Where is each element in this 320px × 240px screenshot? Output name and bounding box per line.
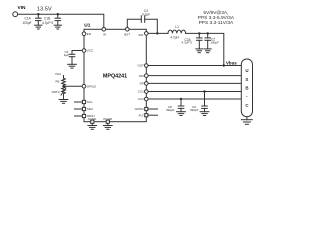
ground C1A: [35, 25, 42, 29]
wire SDA stub: [75, 108, 83, 110]
svg-text:R6: R6: [56, 79, 60, 83]
pin IN: [102, 28, 106, 32]
wire AGND to ground: [91, 124, 93, 126]
label USB-C: [245, 68, 249, 108]
pin IMON: [82, 114, 85, 117]
wire DM to USB-C: [148, 75, 241, 77]
pin CC2: [145, 97, 149, 101]
ground RNTC: [59, 100, 68, 104]
ground C9: [200, 112, 209, 116]
wire PGND to ground: [107, 124, 109, 126]
capacitor C4: [141, 16, 144, 23]
node Vbus junction: [223, 64, 225, 66]
node C2A junction: [198, 32, 200, 34]
svg-text:SDA: SDA: [87, 107, 93, 111]
svg-text:C1B: C1B: [44, 16, 50, 20]
wire node to GPIO2: [64, 85, 83, 87]
wire DP to USB-C: [148, 82, 241, 84]
svg-text:U: U: [245, 68, 248, 73]
USB-C connector: [241, 59, 252, 117]
svg-text:DP: DP: [140, 82, 144, 86]
svg-text:IN: IN: [103, 33, 106, 37]
pin EN: [82, 32, 86, 36]
svg-text:MPQ4241: MPQ4241: [103, 74, 127, 80]
pin GPIO2: [82, 84, 86, 88]
wire VIN rail: [18, 14, 104, 27]
svg-text:390pF: 390pF: [166, 108, 175, 112]
svg-text:PGND: PGND: [103, 117, 113, 121]
wire VCC to C3: [72, 51, 82, 55]
svg-text:100µF: 100µF: [210, 40, 219, 44]
capacitor C1A: [36, 14, 42, 25]
node C1B junction: [57, 13, 59, 15]
capacitor C2: [205, 33, 211, 49]
svg-text:BST: BST: [124, 33, 130, 37]
svg-text:VCC: VCC: [55, 72, 62, 76]
svg-text:RNTC: RNTC: [52, 90, 61, 94]
ground C8: [177, 112, 186, 116]
thermistor arrow: [61, 88, 66, 95]
svg-text:EN: EN: [87, 32, 91, 36]
svg-text:VCC: VCC: [87, 49, 94, 53]
resistor R6: [62, 78, 66, 85]
ground AGND: [88, 126, 97, 130]
svg-text:SCL: SCL: [87, 100, 93, 104]
ground PGND: [103, 126, 112, 130]
svg-text:4.7µF*2: 4.7µF*2: [182, 41, 193, 45]
inductor L1: [168, 30, 186, 33]
IC U1 MPQ4241: [84, 29, 146, 121]
svg-text:4.7µH: 4.7µH: [170, 35, 179, 39]
node C1A junction: [37, 13, 39, 15]
pin DP: [145, 82, 149, 86]
svg-text:S: S: [245, 77, 248, 82]
svg-text:OUT: OUT: [137, 64, 144, 68]
svg-text:1µF: 1µF: [64, 53, 69, 57]
node SW junction: [156, 32, 158, 34]
pin AGND: [91, 120, 94, 123]
svg-text:B: B: [245, 86, 248, 91]
svg-text:PPS 3.3-11V/3A: PPS 3.3-11V/3A: [199, 20, 234, 26]
svg-text:CC1: CC1: [138, 90, 144, 94]
svg-text:AGND: AGND: [88, 117, 98, 121]
wire OUT to USB-C VBUS: [148, 65, 241, 67]
svg-text:100µF: 100µF: [23, 21, 32, 25]
thermistor RNTC: [62, 86, 66, 94]
ground C1B: [54, 25, 61, 29]
svg-text:L1: L1: [175, 25, 179, 29]
wire RNTC to ground: [63, 94, 65, 100]
wire L1 to Vout corner: [186, 33, 224, 65]
svg-text:U1: U1: [84, 23, 90, 29]
svg-text:GPIO1: GPIO1: [135, 107, 145, 111]
ground C2A: [196, 49, 203, 53]
pin SCL: [82, 100, 85, 103]
wire VCC net to resistor: [63, 76, 65, 79]
svg-text:SW: SW: [138, 33, 143, 37]
pin CC1: [145, 90, 149, 94]
wire IMON stub: [75, 115, 83, 117]
node CC1 cap junction: [203, 90, 205, 92]
capacitor C3: [69, 54, 75, 64]
pin VCC: [82, 49, 86, 53]
pin FLT: [145, 114, 148, 117]
node C2 junction: [207, 32, 209, 34]
capacitor C1B: [55, 14, 61, 25]
wire CC2 to USB-C: [148, 98, 241, 100]
pin BST: [126, 28, 130, 32]
pin SDA: [82, 107, 85, 110]
ground C2: [204, 49, 211, 53]
wire SW to L1: [148, 32, 168, 34]
wire BST bootstrap: [127, 19, 141, 27]
svg-text:13.5V: 13.5V: [37, 6, 52, 12]
svg-text:FLT: FLT: [139, 113, 144, 117]
svg-text:C1A: C1A: [25, 16, 32, 20]
node CC2 cap junction: [180, 98, 182, 100]
svg-text:CC2: CC2: [138, 97, 144, 101]
svg-text:Vbus: Vbus: [226, 60, 237, 65]
wire CC1 to USB-C: [148, 91, 241, 93]
svg-text:DM: DM: [139, 74, 144, 78]
wire SCL stub: [75, 101, 83, 103]
svg-text:0.1µF: 0.1µF: [142, 12, 150, 16]
capacitor C9: [202, 92, 208, 112]
pin PGND: [106, 120, 109, 123]
pin DM: [145, 74, 149, 78]
capacitor C2A: [197, 33, 203, 49]
wire USB-C shield to ground: [246, 117, 248, 120]
wire FLT stub: [148, 114, 158, 116]
capacitor C8: [178, 99, 184, 112]
wire BST to SW node: [145, 19, 158, 33]
pin GPIO1: [145, 107, 148, 110]
ground USB-C: [241, 120, 252, 125]
svg-text:4.7µF*2: 4.7µF*2: [42, 21, 53, 25]
terminal VIN: [13, 12, 18, 17]
wire GPIO1 stub: [148, 108, 158, 110]
svg-text:GPIO2: GPIO2: [87, 84, 97, 88]
pin SW: [145, 32, 149, 36]
svg-text:VIN: VIN: [18, 5, 27, 11]
wire R6 to node: [63, 84, 65, 87]
ground C3: [68, 64, 77, 68]
pin OUT: [145, 64, 149, 68]
svg-text:390pF: 390pF: [190, 108, 199, 112]
